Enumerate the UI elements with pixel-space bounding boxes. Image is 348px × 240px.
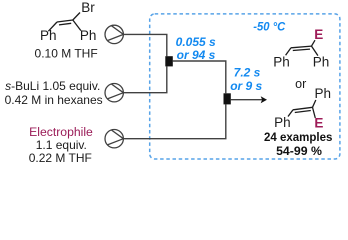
cooled reactor dashed box	[150, 14, 340, 159]
bond C2-PhR	[313, 100, 316, 107]
svg-text:24 examples: 24 examples	[264, 132, 332, 144]
pump 3	[105, 130, 123, 148]
svg-text:s-BuLi 1.05 equiv.: s-BuLi 1.05 equiv.	[5, 79, 100, 93]
double bond C1=C2	[293, 107, 313, 110]
product 2 structure	[288, 100, 316, 118]
double bond C1=C2	[291, 46, 312, 48]
svg-text:54-99 %: 54-99 %	[276, 144, 322, 158]
double bond C1=C2	[57, 20, 73, 22]
wire pump3 to tee2	[123, 104, 225, 138]
bond C2-Br	[73, 13, 80, 21]
svg-text:Electrophile: Electrophile	[29, 125, 93, 139]
svg-text:0.055 s: 0.055 s	[176, 35, 216, 49]
bond PhL-C1	[48, 22, 57, 31]
svg-text:Ph: Ph	[80, 28, 97, 43]
svg-text:0.42 M in hexanes: 0.42 M in hexanes	[5, 93, 103, 107]
svg-text:Ph: Ph	[40, 28, 57, 43]
svg-text:Ph: Ph	[273, 54, 290, 69]
mixer tee1	[165, 56, 173, 66]
bond C2-PhR	[312, 46, 318, 56]
wire pump1 to tee1	[123, 34, 166, 56]
bond C2-PhR	[73, 20, 81, 31]
pump 1	[105, 25, 123, 43]
svg-text:7.2 s: 7.2 s	[234, 65, 261, 79]
reactant structure: (Z)-alpha-bromostilbene	[48, 13, 81, 32]
svg-text:or: or	[295, 77, 306, 91]
svg-text:Ph: Ph	[313, 54, 330, 69]
svg-text:or 94 s: or 94 s	[177, 48, 216, 62]
svg-text:-50 °C: -50 °C	[253, 20, 285, 34]
svg-text:E: E	[314, 27, 323, 42]
bond PhL-C1	[288, 110, 293, 117]
wire pump2 to tee1	[123, 66, 166, 92]
product 1 structure	[286, 40, 318, 55]
svg-text:0.22 M THF: 0.22 M THF	[29, 151, 92, 165]
pump 2	[105, 84, 123, 102]
wire tee1 to tee2	[173, 61, 226, 93]
arrowhead	[261, 96, 267, 103]
bond C2-E	[312, 40, 316, 46]
bond PhL-C1	[286, 48, 291, 55]
svg-text:or 9 s: or 9 s	[230, 79, 262, 93]
tubing	[123, 34, 262, 138]
svg-text:Ph: Ph	[274, 115, 291, 130]
svg-text:1.1 equiv.: 1.1 equiv.	[36, 138, 87, 152]
svg-text:0.10 M THF: 0.10 M THF	[35, 46, 98, 60]
wire tee2 to arrow	[231, 99, 263, 101]
svg-text:Ph: Ph	[315, 86, 332, 101]
mixer tee2	[224, 93, 231, 104]
bond C2-E	[313, 107, 316, 118]
svg-text:E: E	[314, 116, 323, 131]
svg-text:Br: Br	[81, 0, 95, 15]
